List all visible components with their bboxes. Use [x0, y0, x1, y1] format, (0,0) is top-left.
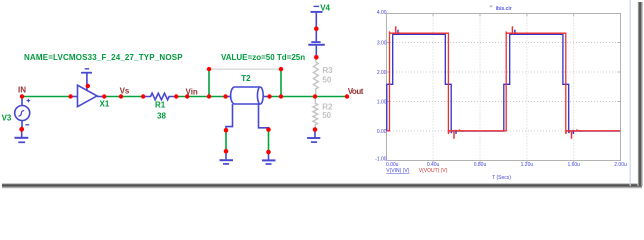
svg-text:V4: V4 [320, 4, 330, 13]
svg-text:V3: V3 [2, 113, 12, 122]
svg-text:38: 38 [157, 112, 166, 121]
svg-text:IN: IN [18, 86, 26, 95]
svg-text:1.00: 1.00 [377, 99, 387, 105]
svg-text:4.00: 4.00 [377, 10, 387, 16]
svg-text:50: 50 [322, 111, 331, 120]
svg-text:NAME=LVCMOS33_F_24_27_TYP_NOSP: NAME=LVCMOS33_F_24_27_TYP_NOSP [24, 53, 183, 62]
svg-text:X1: X1 [100, 100, 110, 109]
svg-text:V(VOUT) (V): V(VOUT) (V) [419, 168, 448, 174]
svg-text:T (Secs): T (Secs) [492, 175, 511, 181]
svg-text:3.00: 3.00 [377, 40, 387, 46]
svg-text:ibis.cir: ibis.cir [496, 6, 512, 12]
svg-text:T2: T2 [241, 74, 251, 83]
svg-text:Vs: Vs [120, 87, 130, 96]
svg-text:Vin: Vin [186, 88, 198, 97]
svg-text:2.00: 2.00 [377, 70, 387, 76]
svg-text:R1: R1 [155, 101, 166, 110]
svg-text:R3: R3 [322, 66, 333, 75]
svg-text:0.80u: 0.80u [474, 162, 487, 168]
svg-text:Vout: Vout [348, 87, 364, 96]
svg-text:2.00u: 2.00u [614, 162, 627, 168]
svg-text:0.00: 0.00 [377, 129, 387, 135]
svg-text:1.20u: 1.20u [521, 162, 534, 168]
svg-text:VALUE=zo=50 Td=25n: VALUE=zo=50 Td=25n [221, 53, 305, 62]
svg-text:1.60u: 1.60u [567, 162, 580, 168]
svg-text:50: 50 [322, 75, 331, 84]
svg-text:V(VIN) (V): V(VIN) (V) [386, 168, 409, 174]
svg-text:R2: R2 [322, 102, 333, 111]
